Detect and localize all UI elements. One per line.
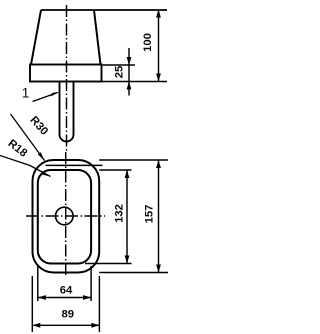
flange bottom extension line xyxy=(102,81,168,83)
inner rounded rectangle R18 xyxy=(38,170,91,264)
svg-text:100: 100 xyxy=(142,33,154,52)
outer rounded rectangle R30 xyxy=(33,160,100,273)
ext lines 132 top xyxy=(99,169,131,171)
R30 leader line xyxy=(11,114,45,161)
R18 arrowhead xyxy=(42,171,51,176)
stem outline with round bottom xyxy=(60,82,74,142)
dim line 89 xyxy=(32,324,99,326)
knob right slant edge xyxy=(94,10,101,65)
ext lines 64 xyxy=(37,266,39,301)
svg-text:64: 64 xyxy=(60,284,73,296)
centerline bottom view horizontal xyxy=(26,215,105,217)
svg-text:R30: R30 xyxy=(27,114,50,137)
center hole circle xyxy=(56,207,74,225)
dim 25 upper tail with down arrow xyxy=(128,48,130,96)
dim line 64 xyxy=(38,297,91,299)
svg-text:1: 1 xyxy=(22,85,30,101)
ext line 157 top (outer top edge extended) xyxy=(99,159,168,161)
R30 arrowhead xyxy=(38,152,45,160)
svg-text:157: 157 xyxy=(144,205,156,224)
ext line 157 bottom xyxy=(99,272,168,274)
arrow down 100 xyxy=(156,74,161,82)
ext lines 132 bottom xyxy=(85,263,132,265)
svg-text:89: 89 xyxy=(62,309,75,321)
leader line for label 1 xyxy=(33,93,58,102)
knob left slant edge xyxy=(31,10,41,65)
dim line 132 xyxy=(126,170,128,264)
ext lines 89 xyxy=(31,276,33,332)
dim line 100 xyxy=(158,10,160,82)
arrow up 100 xyxy=(156,10,161,18)
leader arrowhead on stem xyxy=(51,92,60,97)
step edge line across top of pad xyxy=(46,164,103,166)
knob top edge with extension line to 100-dim xyxy=(41,9,167,11)
centerline top view xyxy=(66,5,68,151)
dim line 157 xyxy=(158,160,160,273)
R18 leader line xyxy=(0,156,51,177)
dim 25 lower tail with up arrow xyxy=(127,82,132,90)
svg-text:25: 25 xyxy=(114,66,126,79)
flange top extension line for 25-dim xyxy=(102,64,136,66)
svg-text:R18: R18 xyxy=(5,138,29,160)
flange rectangle xyxy=(30,65,102,82)
centerline bottom view vertical xyxy=(65,152,67,277)
svg-text:132: 132 xyxy=(113,204,125,223)
